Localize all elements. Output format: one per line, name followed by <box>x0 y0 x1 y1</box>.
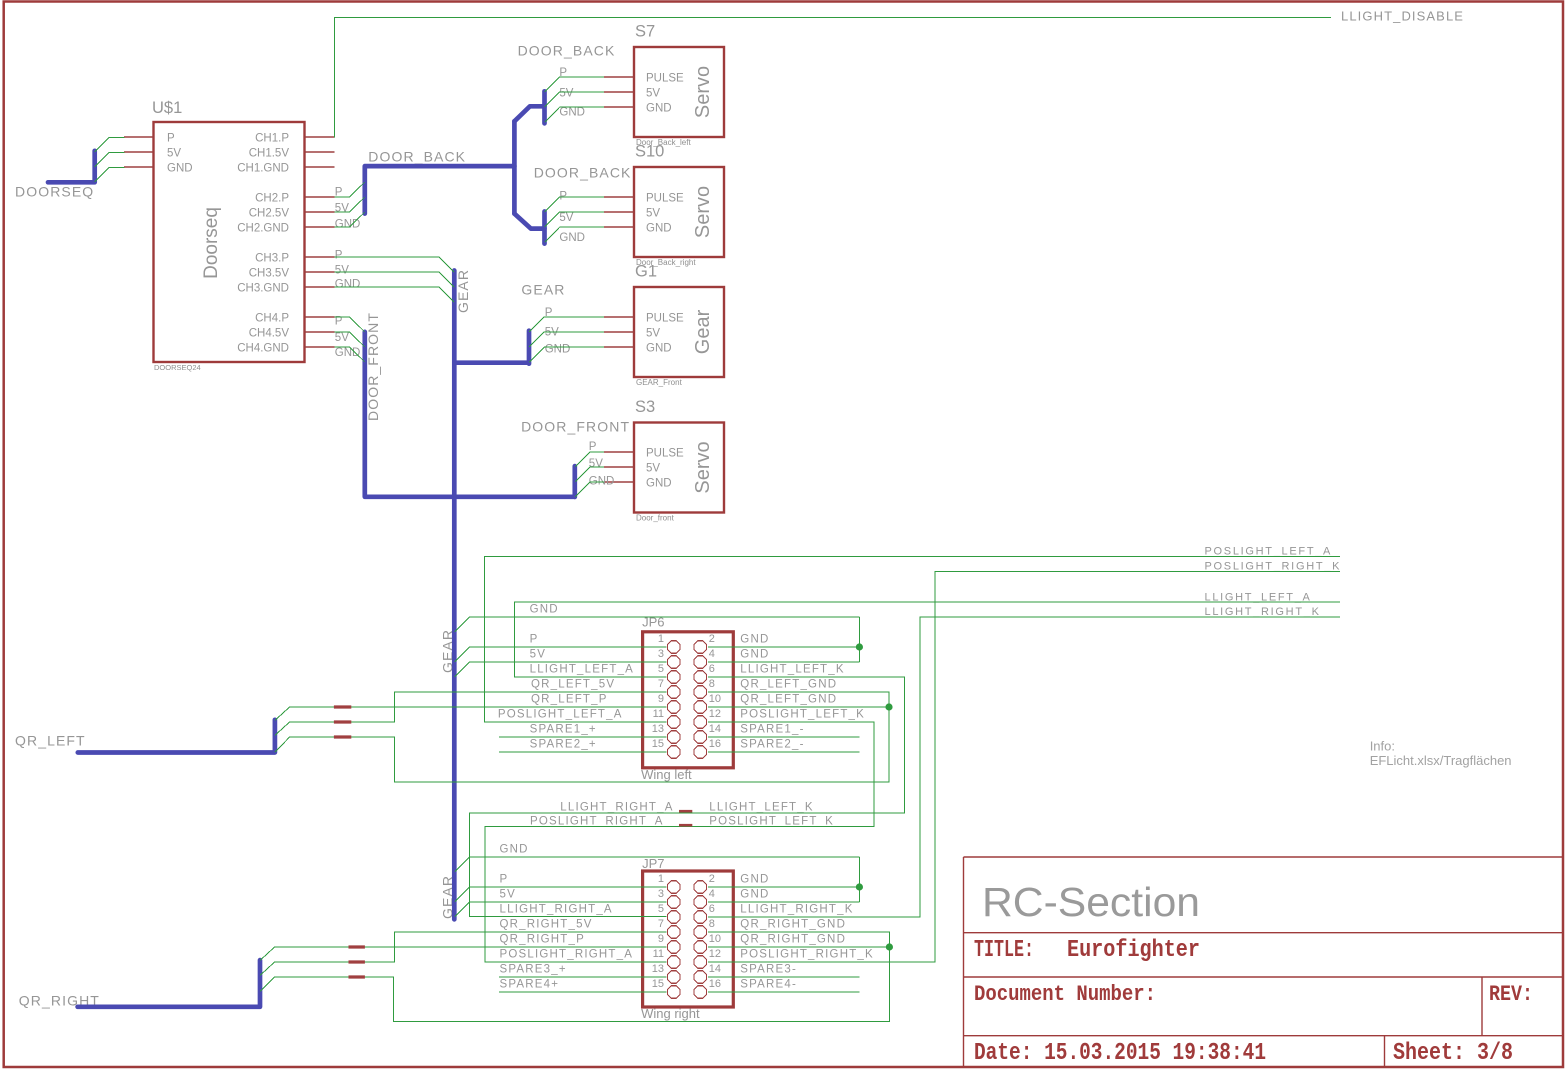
net label 5V (S3) <box>589 458 603 470</box>
svg-text:5: 5 <box>658 663 664 675</box>
U$1 pin CH3.GND stub <box>305 286 335 288</box>
svg-text:14: 14 <box>709 723 721 735</box>
S10 pin GND stub <box>604 226 634 228</box>
wire QR_LEFT_5V to JP6 pin7 <box>290 692 667 722</box>
JP7 pin circle 9 <box>668 941 680 953</box>
svg-text:Wing right: Wing right <box>641 1006 700 1021</box>
svg-text:JP7: JP7 <box>642 856 664 871</box>
net label SPARE2_- (JP6 right) <box>740 739 804 751</box>
svg-text:1: 1 <box>658 873 664 885</box>
JP7 refdes <box>642 856 664 871</box>
svg-text:POSLIGHT_LEFT_A: POSLIGHT_LEFT_A <box>1205 546 1333 558</box>
svg-text:5V: 5V <box>335 332 349 344</box>
net label GND (JP6 right) <box>740 634 769 646</box>
JP7 pin number 6 <box>709 903 715 915</box>
net label GEAR <box>521 282 565 298</box>
svg-text:GEAR: GEAR <box>455 269 471 313</box>
U$1 pin CH3.5V stub <box>305 271 335 273</box>
wire QR_RIGHT_GND JP7 pin10 link <box>708 946 889 948</box>
svg-text:GND: GND <box>335 347 361 359</box>
net label SPARE1_- (JP6 right) <box>740 724 804 736</box>
svg-text:5V: 5V <box>167 148 181 160</box>
svg-text:POSLIGHT_RIGHT_K: POSLIGHT_RIGHT_K <box>1205 560 1342 572</box>
wire QR_LEFT_5V tap <box>275 722 290 735</box>
JP6 pin number 5 <box>658 663 664 675</box>
svg-text:LLIGHT_RIGHT_A: LLIGHT_RIGHT_A <box>500 904 613 916</box>
wire P to JP7 pin1 <box>455 887 667 902</box>
JP7 pin circle 15 <box>668 986 680 998</box>
wire S7 PULSE tap <box>545 77 604 92</box>
net label SPARE2_+ (JP6 left) <box>530 739 597 751</box>
wire DOORSEQ P tap <box>95 138 125 153</box>
JP6 pin number 11 <box>653 708 664 720</box>
JP6 pin number 12 <box>709 708 721 720</box>
wire G1 5V tap <box>529 332 604 347</box>
U$1 pin CH1.5V stub <box>305 151 335 153</box>
svg-text:12: 12 <box>709 708 721 720</box>
JP7 pin circle 5 <box>668 911 680 923</box>
wire DOOR_FRONT CH4.5V tap <box>335 332 365 347</box>
svg-text:TITLE:: TITLE: <box>974 937 1034 964</box>
S3 pin name GND <box>646 477 672 489</box>
JP6 pin circle 5 <box>668 671 680 683</box>
servo S3 box <box>634 423 724 513</box>
bus-entry mark POSLIGHT chain <box>679 824 692 827</box>
svg-text:8: 8 <box>709 918 715 930</box>
wire bus DOOR_FRONT <box>365 332 575 497</box>
G1 pin 5V stub <box>604 331 634 333</box>
bus-entry mark QR_RIGHT_GND <box>349 975 365 978</box>
S10 pin 5V stub <box>604 211 634 213</box>
svg-text:Servo: Servo <box>692 186 714 238</box>
svg-text:CH1.P: CH1.P <box>255 133 289 145</box>
wire bus GEAR to G1 <box>454 331 529 364</box>
svg-text:6: 6 <box>709 663 715 675</box>
net label GND (JP7 right) <box>740 874 769 886</box>
net label SPARE4- (JP7 right) <box>740 979 797 991</box>
wire bus GEAR trunk <box>452 271 457 920</box>
svg-text:3: 3 <box>658 648 664 660</box>
JP6 pin circle 14 <box>694 731 706 743</box>
JP7 pin circle 14 <box>694 971 706 983</box>
servo G1 box <box>634 287 724 377</box>
svg-text:SPARE2_+: SPARE2_+ <box>530 739 597 751</box>
svg-text:5V: 5V <box>646 327 660 339</box>
S10 pin name PULSE <box>646 192 684 204</box>
S3 pin GND stub <box>604 481 634 483</box>
JP6 refdes <box>642 615 664 630</box>
svg-text:POSLIGHT_RIGHT_A: POSLIGHT_RIGHT_A <box>530 815 664 827</box>
wire GND JP6 pin4 link <box>708 661 859 663</box>
svg-text:Servo: Servo <box>692 66 714 118</box>
U$1 pin CH3.P stub <box>305 256 335 258</box>
JP6 pin number 13 <box>652 723 664 735</box>
svg-text:5V: 5V <box>500 889 516 901</box>
JP7 pin circle 6 <box>694 911 706 923</box>
connector JP6 box <box>643 632 734 768</box>
svg-text:13: 13 <box>652 963 664 975</box>
net label P (S7) <box>559 67 567 79</box>
U$1 pin name CH2.5V <box>249 208 290 220</box>
bus-entry mark QR_RIGHT_5V <box>349 960 365 963</box>
svg-text:LLIGHT_RIGHT_A: LLIGHT_RIGHT_A <box>560 801 673 813</box>
net label DOOR_BACK <box>518 43 616 59</box>
S3 symbol name Servo (rotated) <box>692 441 714 493</box>
junction GND at JP6 pin2 <box>856 643 863 650</box>
JP6 pin number 10 <box>709 693 721 705</box>
net label POSLIGHT_LEFT_K (mid) <box>709 815 834 827</box>
wire QR_LEFT_GND wrap to JP6 pin8 <box>290 692 889 782</box>
svg-text:QR_RIGHT_GND: QR_RIGHT_GND <box>740 934 846 946</box>
svg-text:GND: GND <box>530 604 559 616</box>
svg-text:5V: 5V <box>589 458 603 470</box>
net label SPARE1_+ (JP6 left) <box>530 724 597 736</box>
JP7 pin number 4 <box>709 888 715 900</box>
wire DOOR_FRONT CH4.P tap <box>335 317 365 332</box>
svg-text:SPARE3-: SPARE3- <box>740 964 797 976</box>
svg-text:GND: GND <box>646 102 672 114</box>
JP7 pin circle 4 <box>694 896 706 908</box>
svg-text:LLIGHT_RIGHT_K: LLIGHT_RIGHT_K <box>740 904 853 916</box>
svg-text:Door_front: Door_front <box>636 514 675 523</box>
wire QR_LEFT_GND JP6 pin10 link <box>708 706 889 708</box>
U$1 pin CH4.5V stub <box>305 331 335 333</box>
net label P (JP7 left) <box>500 874 509 886</box>
svg-text:11: 11 <box>653 948 664 960</box>
wire 5V to JP6 pin3 <box>454 662 666 677</box>
wire G1 GND tap <box>529 347 604 362</box>
wire G1 PULSE tap <box>529 317 604 332</box>
net label LLIGHT_RIGHT_K (right) <box>1205 606 1321 618</box>
JP6 pin number 1 <box>658 633 664 645</box>
S10 pin name 5V <box>646 207 660 219</box>
net label LLIGHT_LEFT_K (JP6 right) <box>740 664 844 676</box>
svg-text:S7: S7 <box>635 23 655 41</box>
net label 5V (CH4) <box>335 332 349 344</box>
wire QR_RIGHT_P to JP7 pin9 <box>275 946 667 948</box>
JP7 pin number 13 <box>652 963 664 975</box>
JP7 pin circle 1 <box>668 881 680 893</box>
U$1 pin CH1.GND stub <box>305 166 335 168</box>
bus-entry mark LLIGHT chain <box>679 810 692 813</box>
wire SPARE1_+ <box>499 736 667 738</box>
svg-text:4: 4 <box>709 648 715 660</box>
JP6 pin number 6 <box>709 663 715 675</box>
svg-text:P: P <box>335 249 343 261</box>
wire POSLIGHT_RIGHT_K <box>708 572 1340 963</box>
wire GND JP7 drop <box>858 857 860 902</box>
JP7 pin number 3 <box>658 888 664 900</box>
net label POSLIGHT_LEFT_A (JP6 left) <box>498 709 623 721</box>
title block text RC-Section <box>982 879 1200 925</box>
junction QR_RIGHT_GND at JP7 pin10 <box>886 943 893 950</box>
net label GND (JP7 left) <box>500 844 529 856</box>
S10 pin name GND <box>646 222 672 234</box>
U$1 pin name CH1.P <box>255 133 289 145</box>
JP7 pin number 5 <box>658 903 664 915</box>
net label GEAR (rotated, near CH3) <box>455 269 471 313</box>
svg-text:GEAR_Front: GEAR_Front <box>636 378 683 387</box>
S7 pin name 5V <box>646 87 660 99</box>
svg-text:Document Number:: Document Number: <box>974 982 1156 1007</box>
net label 5V (S7) <box>559 88 573 100</box>
net label DOOR_BACK <box>534 165 632 181</box>
JP6 pin circle 6 <box>694 671 706 683</box>
svg-text:7: 7 <box>658 918 664 930</box>
JP7 value Wing right <box>641 1006 700 1021</box>
G1 pin PULSE stub <box>604 316 634 318</box>
wire QR_RIGHT_GND wrap to JP7 pin8 <box>275 932 890 1022</box>
wire GND JP6 drop <box>858 617 860 662</box>
U$1 pin CH1.P stub <box>305 136 335 138</box>
wire bus DOORSEQ <box>48 151 95 183</box>
svg-text:QR_RIGHT_P: QR_RIGHT_P <box>500 934 586 946</box>
bus-entry mark QR_LEFT_5V <box>334 720 351 723</box>
wire SPARE2_- <box>708 751 859 753</box>
svg-text:POSLIGHT_RIGHT_A: POSLIGHT_RIGHT_A <box>500 949 634 961</box>
svg-text:CH4.P: CH4.P <box>255 313 289 325</box>
U$1 pin name CH3.P <box>255 253 289 265</box>
JP6 pin circle 7 <box>668 686 680 698</box>
wire GND (JP6 side) from GEAR <box>454 617 859 632</box>
net label 5V (JP7 left) <box>500 889 516 901</box>
wire 5V to JP7 pin3 <box>455 902 667 917</box>
net label P (CH4) <box>335 316 343 328</box>
bus-entry mark QR_RIGHT_P <box>349 945 365 948</box>
G1 symbol name Gear (rotated) <box>692 309 714 354</box>
JP7 pin circle 10 <box>694 941 706 953</box>
svg-text:DOOR_BACK: DOOR_BACK <box>368 149 466 165</box>
G1 pin GND stub <box>604 346 634 348</box>
net label P (CH3) <box>335 249 343 261</box>
svg-text:P: P <box>500 874 509 886</box>
net label DOOR_BACK <box>368 149 466 165</box>
wire DOOR_FRONT CH4.GND tap <box>335 347 365 362</box>
svg-text:GND: GND <box>545 344 571 356</box>
svg-text:10: 10 <box>709 693 721 705</box>
U$1 pin name CH4.5V <box>249 328 290 340</box>
svg-text:POSLIGHT_LEFT_A: POSLIGHT_LEFT_A <box>498 709 623 721</box>
JP7 pin number 16 <box>709 978 721 990</box>
svg-text:PULSE: PULSE <box>646 312 684 324</box>
net label POSLIGHT_LEFT_A (right) <box>1205 546 1333 558</box>
svg-text:DOORSEQ24: DOORSEQ24 <box>154 363 201 372</box>
net label LLIGHT_LEFT_A (JP6 left) <box>530 664 634 676</box>
net label P (S10) <box>559 191 567 203</box>
JP6 pin number 4 <box>709 648 715 660</box>
U$1 pin name CH4.P <box>255 313 289 325</box>
wire DOOR_BACK CH2.GND tap <box>335 212 365 227</box>
svg-text:GND: GND <box>589 475 615 487</box>
JP7 pin circle 11 <box>668 956 680 968</box>
S7 pin PULSE stub <box>604 76 634 78</box>
svg-text:GND: GND <box>335 279 361 291</box>
JP6 pin circle 9 <box>668 701 680 713</box>
wire bus QR_RIGHT <box>78 960 260 1007</box>
JP7 pin circle 7 <box>668 926 680 938</box>
wire GND JP7 pin4 link <box>708 901 859 903</box>
svg-text:CH3.5V: CH3.5V <box>249 268 290 280</box>
svg-text:GEAR: GEAR <box>521 282 565 298</box>
net label LLIGHT_LEFT_K (mid) <box>709 801 813 813</box>
title block Date: 15.03.2015 19:38:41 <box>974 1040 1266 1067</box>
svg-text:5V: 5V <box>530 649 546 661</box>
U$1 pin name CH4.GND <box>237 343 289 355</box>
net label GND (CH4) <box>335 347 361 359</box>
net label GND (S3) <box>589 475 615 487</box>
wire P to JP6 pin1 <box>454 647 666 662</box>
svg-text:QR_RIGHT_5V: QR_RIGHT_5V <box>500 919 593 931</box>
svg-text:P: P <box>589 441 597 453</box>
svg-text:PULSE: PULSE <box>646 72 684 84</box>
S7 pin 5V stub <box>604 91 634 93</box>
svg-text:GND: GND <box>167 163 193 175</box>
servo S7 box <box>634 47 724 137</box>
svg-text:CH4.5V: CH4.5V <box>249 328 290 340</box>
U$1 refdes <box>152 99 182 117</box>
U$1 part name Doorseq (rotated) <box>201 207 222 279</box>
svg-text:DOOR_FRONT: DOOR_FRONT <box>365 312 381 421</box>
G1 refdes <box>635 263 657 281</box>
wire SPARE4- <box>708 991 859 993</box>
svg-text:GND: GND <box>559 107 585 119</box>
net label GND (S10) <box>559 232 585 244</box>
JP6 pin number 2 <box>709 633 715 645</box>
svg-text:POSLIGHT_LEFT_K: POSLIGHT_LEFT_K <box>740 709 865 721</box>
wire GEAR CH3.P tap <box>335 257 455 272</box>
svg-text:2: 2 <box>709 873 715 885</box>
wire S7 GND tap <box>545 107 604 122</box>
wire S10 5V tap <box>545 212 604 227</box>
svg-text:13: 13 <box>652 723 664 735</box>
svg-text:G1: G1 <box>635 263 657 281</box>
connector JP7 box <box>643 871 734 1007</box>
net label P (G1) <box>545 307 553 319</box>
net label LLIGHT_RIGHT_A (JP7 left) <box>500 904 613 916</box>
junction QR_LEFT_GND at JP6 pin10 <box>885 703 892 710</box>
IC U$1 Doorseq box <box>154 122 305 362</box>
JP6 pin number 16 <box>709 738 721 750</box>
svg-text:7: 7 <box>658 678 664 690</box>
net label QR_RIGHT_5V (JP7 left) <box>500 919 593 931</box>
JP6 pin circle 13 <box>668 731 680 743</box>
svg-text:DOOR_BACK: DOOR_BACK <box>534 165 632 181</box>
U$1 pin name CH1.5V <box>249 148 290 160</box>
svg-text:SPARE3_+: SPARE3_+ <box>500 964 567 976</box>
svg-text:5V: 5V <box>646 87 660 99</box>
svg-text:12: 12 <box>709 948 721 960</box>
svg-text:10: 10 <box>709 933 721 945</box>
svg-text:CH1.5V: CH1.5V <box>249 148 290 160</box>
wire bus DOOR_BACK S10 bar <box>542 212 547 244</box>
net label QR_RIGHT_P (JP7 left) <box>500 934 586 946</box>
svg-text:S3: S3 <box>635 398 655 416</box>
net label SPARE3- (JP7 right) <box>740 964 797 976</box>
net label LLIGHT_DISABLE <box>1341 9 1464 24</box>
svg-text:CH3.P: CH3.P <box>255 253 289 265</box>
net label 5V (CH3) <box>335 265 349 277</box>
net label GEAR (rotated, at JP6) <box>440 629 456 673</box>
S3 refdes <box>635 398 655 416</box>
wire GEAR CH3.GND tap <box>335 287 455 302</box>
wire S7 5V tap <box>545 92 604 107</box>
U$1 pin 5V stub <box>124 151 154 153</box>
svg-text:Gear: Gear <box>692 309 714 354</box>
svg-text:GND: GND <box>646 222 672 234</box>
JP6 value Wing left <box>641 767 692 782</box>
svg-text:CH4.GND: CH4.GND <box>237 343 289 355</box>
svg-text:9: 9 <box>658 693 664 705</box>
JP6 pin number 8 <box>709 678 715 690</box>
net label GND (CH3) <box>335 279 361 291</box>
S10 value Door_Back_right <box>636 258 696 267</box>
S3 pin name 5V <box>646 462 660 474</box>
svg-text:GND: GND <box>646 477 672 489</box>
G1 value GEAR_Front <box>636 378 683 387</box>
U$1 pin CH2.GND stub <box>305 226 335 228</box>
svg-text:5: 5 <box>658 903 664 915</box>
svg-text:S10: S10 <box>635 143 664 161</box>
wire bus DOOR_BACK riser <box>512 121 517 213</box>
net label POSLIGHT_RIGHT_A (JP7 left) <box>500 949 634 961</box>
svg-text:Date: 15.03.2015 19:38:41: Date: 15.03.2015 19:38:41 <box>974 1040 1266 1067</box>
svg-text:5V: 5V <box>646 207 660 219</box>
svg-text:GND: GND <box>740 889 769 901</box>
svg-text:SPARE4+: SPARE4+ <box>500 979 560 991</box>
wire SPARE2_+ <box>499 751 667 753</box>
net label DOOR_FRONT <box>521 419 630 435</box>
svg-text:Wing left: Wing left <box>641 767 692 782</box>
S3 pin PULSE stub <box>604 451 634 453</box>
JP7 pin circle 16 <box>694 986 706 998</box>
net label POSLIGHT_RIGHT_A (mid) <box>530 815 664 827</box>
wire GEAR CH3.5V tap <box>335 272 455 287</box>
svg-text:DOORSEQ: DOORSEQ <box>15 184 94 200</box>
wire QR_LEFT_GND tap <box>275 737 290 752</box>
JP7 pin circle 2 <box>694 881 706 893</box>
JP7 pin circle 3 <box>668 896 680 908</box>
svg-text:LLIGHT_RIGHT_K: LLIGHT_RIGHT_K <box>1205 606 1321 618</box>
title block REV: <box>1489 982 1533 1007</box>
JP7 pin number 10 <box>709 933 721 945</box>
svg-text:5V: 5V <box>559 212 573 224</box>
wire SPARE3- <box>708 976 859 978</box>
svg-text:11: 11 <box>653 708 664 720</box>
JP7 pin number 2 <box>709 873 715 885</box>
S7 pin GND stub <box>604 106 634 108</box>
svg-text:GND: GND <box>646 342 672 354</box>
svg-text:GND: GND <box>740 874 769 886</box>
wire S10 GND tap <box>545 227 604 242</box>
JP6 pin circle 16 <box>694 746 706 758</box>
net label GEAR (rotated, at JP7) <box>440 875 456 919</box>
svg-text:SPARE1_+: SPARE1_+ <box>530 724 597 736</box>
wire POSLIGHT_LEFT_A <box>485 557 1341 723</box>
svg-text:REV:: REV: <box>1489 982 1533 1007</box>
U$1 pin name CH1.GND <box>237 163 289 175</box>
svg-text:SPARE1_-: SPARE1_- <box>740 724 804 736</box>
JP7 pin number 15 <box>652 978 664 990</box>
wire QR_LEFT_P to JP6 pin9 <box>290 706 667 708</box>
S10 symbol name Servo (rotated) <box>692 186 714 238</box>
net label GND (G1) <box>545 344 571 356</box>
net label QR_RIGHT_GND (JP7 right) <box>740 934 846 946</box>
JP7 pin number 1 <box>658 873 664 885</box>
net label DOORSEQ <box>15 184 94 200</box>
wire QR_RIGHT_GND tap <box>260 977 275 991</box>
svg-text:5V: 5V <box>646 462 660 474</box>
net label GND (JP6 right) <box>740 649 769 661</box>
